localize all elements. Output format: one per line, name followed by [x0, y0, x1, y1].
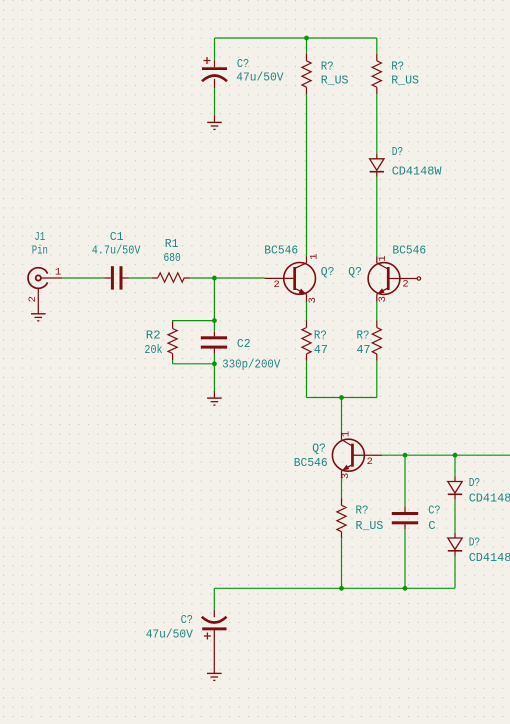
- svg-text:1: 1: [341, 431, 353, 437]
- svg-text:R?: R?: [391, 60, 404, 74]
- svg-text:BC546: BC546: [294, 456, 328, 470]
- svg-text:47: 47: [357, 343, 371, 357]
- svg-text:R_US: R_US: [356, 519, 384, 533]
- svg-text:3: 3: [307, 297, 319, 303]
- svg-text:R?: R?: [357, 328, 370, 342]
- svg-text:20k: 20k: [144, 343, 162, 357]
- svg-text:1: 1: [377, 255, 389, 261]
- svg-text:R?: R?: [356, 504, 369, 518]
- svg-text:CD4148W: CD4148W: [469, 551, 510, 565]
- svg-text:4.7u/50V: 4.7u/50V: [92, 244, 141, 258]
- svg-text:BC546: BC546: [264, 243, 298, 257]
- svg-text:C: C: [428, 519, 435, 533]
- svg-text:1: 1: [55, 267, 61, 279]
- svg-text:CD4148W: CD4148W: [392, 165, 442, 179]
- svg-text:Pin: Pin: [32, 244, 48, 258]
- svg-text:R1: R1: [165, 237, 179, 251]
- svg-text:330p/200V: 330p/200V: [222, 358, 281, 372]
- svg-text:Q?: Q?: [312, 442, 326, 456]
- svg-text:R?: R?: [314, 328, 327, 342]
- svg-text:R2: R2: [146, 328, 161, 342]
- svg-text:C1: C1: [110, 230, 124, 244]
- svg-text:680: 680: [164, 251, 181, 265]
- svg-text:2: 2: [273, 279, 279, 291]
- svg-text:3: 3: [377, 296, 389, 302]
- svg-text:47u/50V: 47u/50V: [236, 71, 284, 85]
- svg-text:Q?: Q?: [321, 265, 335, 279]
- svg-text:1: 1: [308, 253, 320, 259]
- svg-text:C?: C?: [428, 504, 440, 518]
- svg-text:D?: D?: [469, 476, 481, 490]
- svg-text:C2: C2: [237, 337, 251, 351]
- svg-text:3: 3: [340, 473, 352, 479]
- svg-text:2: 2: [367, 456, 373, 468]
- svg-text:2: 2: [402, 279, 408, 291]
- svg-text:2: 2: [27, 296, 39, 302]
- svg-text:J1: J1: [34, 230, 45, 244]
- svg-text:D?: D?: [469, 535, 481, 549]
- svg-text:R_US: R_US: [321, 74, 349, 88]
- svg-text:CD4148W: CD4148W: [469, 492, 510, 506]
- svg-text:C?: C?: [237, 57, 249, 71]
- svg-text:47: 47: [314, 343, 328, 357]
- svg-text:47u/50V: 47u/50V: [146, 628, 194, 642]
- svg-text:R_US: R_US: [391, 74, 419, 88]
- svg-text:Q?: Q?: [348, 265, 362, 279]
- svg-text:D?: D?: [392, 145, 404, 159]
- svg-text:BC546: BC546: [392, 243, 426, 257]
- svg-text:C?: C?: [181, 613, 193, 627]
- svg-text:R?: R?: [321, 60, 334, 74]
